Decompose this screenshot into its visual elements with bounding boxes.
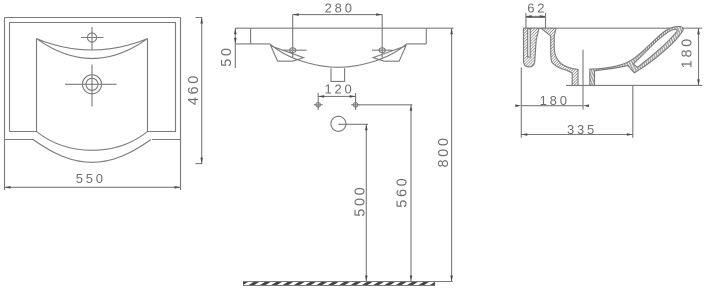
- front view siphon circle: [331, 116, 346, 131]
- svg-text:550: 550: [76, 171, 106, 186]
- front view left rim cap: [235, 28, 270, 44]
- dimension 460: [196, 18, 204, 164]
- dimension 280: [293, 13, 383, 57]
- svg-text:180: 180: [540, 93, 570, 108]
- svg-text:800: 800: [436, 136, 452, 168]
- side view drain centre line: [582, 50, 584, 110]
- side view basin back wall section: [541, 28, 578, 85]
- dimension 800: [450, 28, 453, 281]
- svg-text:50: 50: [219, 45, 235, 66]
- side view rim top line: [524, 27, 703, 29]
- dimension 560: [410, 105, 413, 282]
- front view drain stub: [331, 68, 345, 81]
- front view bowl curve: [270, 44, 407, 67]
- svg-text:500: 500: [353, 185, 369, 217]
- top view outer outline: [5, 18, 181, 191]
- top view faucet hole: [81, 27, 104, 50]
- top view inner rim line: [10, 23, 176, 132]
- front view right rim cap: [407, 28, 427, 44]
- front view left mounting mark: [314, 103, 323, 107]
- top view basin bowl: [37, 39, 148, 151]
- svg-text:62: 62: [527, 0, 547, 15]
- dimension 500: [365, 124, 368, 281]
- dimension 180 bottom: [515, 68, 589, 138]
- svg-text:120: 120: [324, 81, 354, 96]
- svg-text:335: 335: [567, 122, 597, 137]
- svg-text:280: 280: [325, 1, 355, 16]
- front view right mounting mark: [351, 103, 360, 107]
- dimension 62: [526, 13, 546, 18]
- front view right wing: [373, 46, 406, 61]
- svg-text:560: 560: [395, 176, 411, 208]
- svg-text:180: 180: [680, 36, 696, 68]
- side view overflow channel wall section: [524, 28, 540, 67]
- dimension 335: [521, 85, 633, 137]
- front view siphon level line: [338, 123, 368, 125]
- top view drain hole: [65, 65, 117, 107]
- side view bowl bottom and front lip section: [590, 26, 683, 85]
- svg-text:460: 460: [186, 73, 202, 105]
- side view back ledge block: [526, 17, 546, 28]
- dimension 180 right: [697, 28, 700, 85]
- front view hanger level line: [359, 104, 413, 106]
- front view right faucet fixing hole: [372, 48, 393, 53]
- dimension 120: [318, 93, 355, 110]
- front view top edge: [235, 27, 453, 29]
- front view left wing: [271, 46, 304, 61]
- dimension 550: [5, 186, 181, 189]
- dimension 50 line: [234, 28, 237, 68]
- floor line: [243, 282, 453, 286]
- side view bottom line: [566, 84, 702, 86]
- front view left faucet fixing hole: [282, 48, 307, 53]
